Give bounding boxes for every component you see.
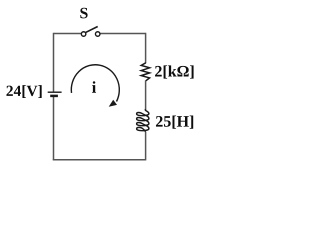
current arrowhead [109,100,117,107]
current label i [92,81,96,92]
wire right lower (inductor bottom lead) [145,132,147,161]
wire bottom segment [53,159,146,161]
wire right upper (resistor top lead) [145,33,147,63]
inductor value label 25[H] [156,116,193,129]
switch S lever [86,27,98,33]
inductor L coil [137,109,149,132]
resistor value label 2[kOhm] [155,65,194,78]
wire right middle (resistor-inductor link) [145,81,147,111]
switch terminal left [81,32,86,37]
resistor R zigzag [141,63,149,81]
switch label S [80,8,87,19]
battery V1 long plate [48,91,62,93]
current direction arc [71,65,119,102]
wire top-right segment [100,33,146,35]
wire left upper (source top lead) [53,33,55,92]
wire top-left segment [54,33,82,35]
switch terminal right [95,32,100,37]
battery value label 24[V] [6,85,41,98]
battery V1 short thick plate [50,95,58,98]
wire left lower (source bottom lead) [53,97,55,161]
